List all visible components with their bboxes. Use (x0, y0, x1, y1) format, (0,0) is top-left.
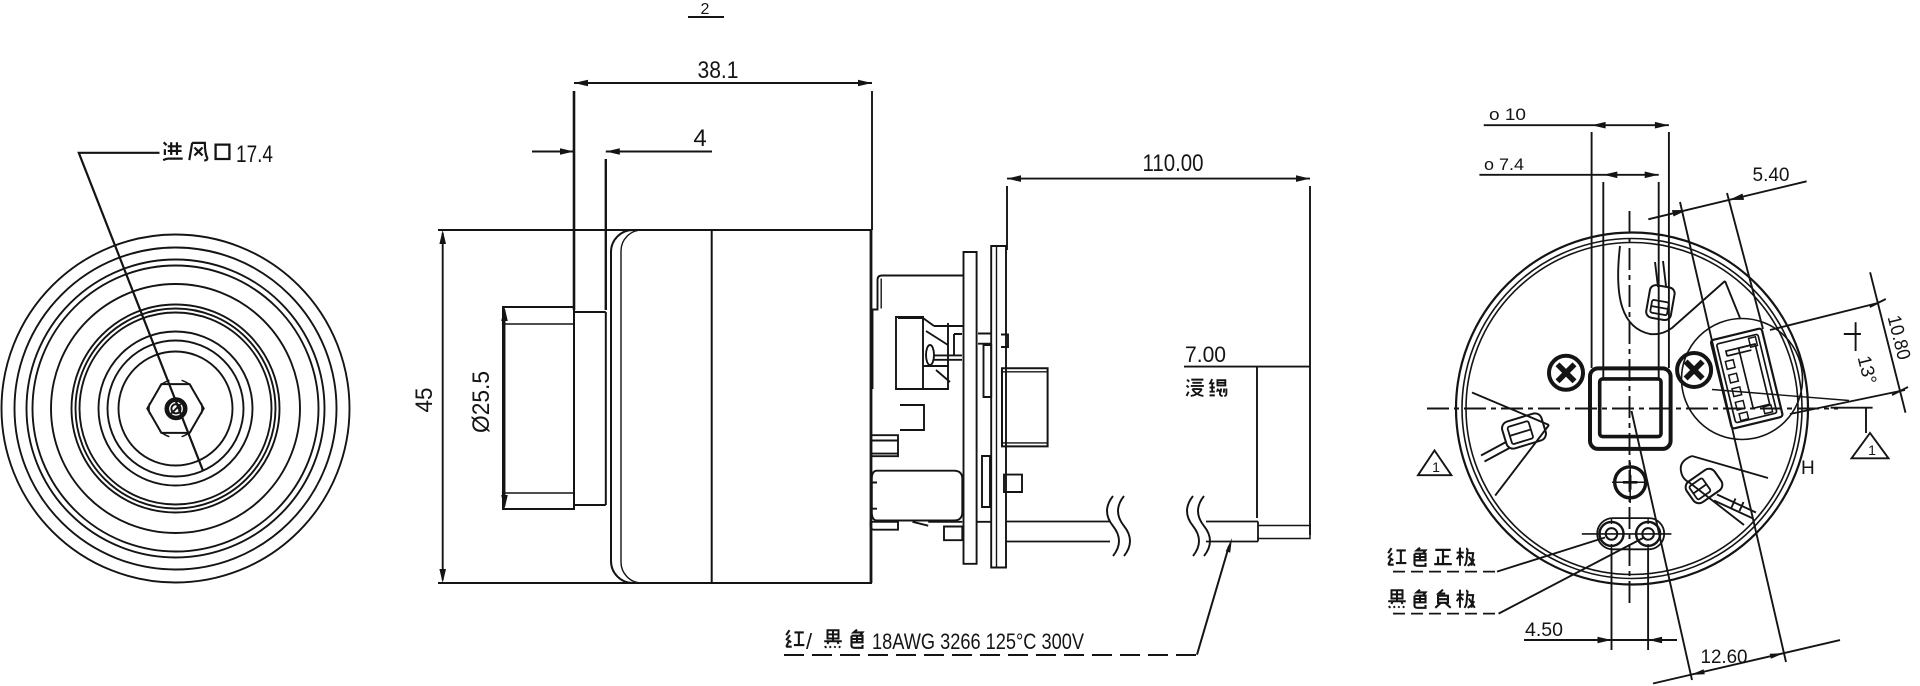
dimension 7.00 浸锡 (1184, 367, 1310, 518)
svg-text:12.60: 12.60 (1701, 647, 1748, 668)
svg-text:5.40: 5.40 (1753, 165, 1790, 186)
svg-text:2: 2 (701, 1, 710, 18)
fan housing circle 3 (27, 260, 325, 558)
svg-text:1: 1 (1432, 459, 1440, 475)
rear plate 2 inner line (996, 246, 998, 568)
svg-text:/: / (806, 629, 813, 654)
brush bracket inner line (880, 279, 882, 309)
tinned lead 7.00 (1258, 526, 1310, 539)
outer circle (1456, 233, 1808, 585)
left clip head (1500, 412, 1547, 451)
dimension 45 (442, 233, 444, 580)
vertical centerline (1629, 211, 1631, 606)
svg-text:110.00: 110.00 (1143, 150, 1204, 177)
inlet circle 11 (119, 352, 233, 466)
lower brush housing (872, 471, 963, 521)
dimension 110.00 (1007, 179, 1310, 535)
black label underline (1393, 613, 1499, 615)
wire label 红/黑色 18AWG 3266 125C 300V (786, 629, 1084, 654)
red label underline (1393, 571, 1497, 573)
inter-plate top tick (978, 334, 991, 344)
small block below connector (1004, 475, 1022, 492)
terminal tab above connector (1001, 335, 1008, 348)
slant connector right edge line (1727, 193, 1763, 329)
svg-text:4.50: 4.50 (1525, 620, 1563, 641)
left triangle 1 (1418, 450, 1451, 475)
hex nut chamfer arcs (149, 380, 202, 436)
dimension 12.60 (1653, 640, 1840, 683)
rear plate 2 (991, 246, 1006, 568)
lower left gray block (872, 435, 898, 456)
left clip pocket (1472, 393, 1549, 496)
shaft screw slot (171, 404, 181, 414)
svg-text:1: 1 (1868, 442, 1876, 458)
housing seam (711, 230, 713, 583)
slant center line (1632, 411, 1693, 680)
rear tab below plates (944, 527, 962, 541)
inter-plate bar upper (984, 345, 992, 397)
body bottom edge + 45 extension (438, 582, 872, 584)
lead wire (1006, 522, 1310, 542)
horizontal centerline (1427, 408, 1838, 410)
screw right (1677, 353, 1711, 387)
inner circle a (1462, 239, 1802, 579)
dimension o7.4 (1479, 175, 1658, 378)
screw left (1549, 356, 1583, 390)
brush vertical divider (948, 323, 962, 366)
wire label arrow (1197, 546, 1229, 655)
label 进风口17.4 (163, 141, 273, 168)
collar 4mm (574, 312, 606, 505)
lower horizontal (928, 521, 991, 523)
wire break marks (1107, 496, 1210, 556)
inlet ring circle 6 (72, 305, 280, 513)
dimension Ø25.5 (504, 310, 506, 506)
brush lower detail (923, 366, 950, 389)
leader line 进风口 (79, 153, 203, 471)
inlet cylinder inner top line (503, 323, 574, 325)
dimension o10 (1484, 125, 1669, 368)
rear plate 1 (964, 252, 977, 564)
connector block (1002, 368, 1048, 446)
svg-text:45: 45 (411, 388, 438, 413)
brush upper detail lines (898, 318, 963, 360)
bottom right clip head (1683, 466, 1725, 506)
inlet cylinder inner bottom line (503, 492, 574, 494)
terminal stadium (1597, 518, 1664, 549)
dimension 13 deg (1844, 322, 1861, 351)
inlet ring circle 8 (80, 313, 272, 505)
svg-text:7.00: 7.00 (1185, 342, 1226, 367)
shaft square outer (1590, 368, 1671, 449)
shaft square inner (1600, 379, 1661, 437)
svg-text:o 10: o 10 (1489, 105, 1526, 124)
bottom right clip pocket (1681, 456, 1768, 525)
connector pocket circle (1682, 319, 1803, 440)
inner circle b (1466, 243, 1798, 575)
slant connector left edge line (1680, 202, 1786, 662)
dimension 4 (532, 152, 712, 311)
label 浸锡 (1187, 380, 1204, 396)
fan housing circle 4 (33, 266, 319, 552)
terminal line (1582, 533, 1672, 535)
body top edge + 45 extension (438, 229, 872, 231)
lower tick (913, 522, 929, 526)
black leader (1499, 538, 1643, 614)
top clip stem (1655, 261, 1666, 287)
fan shell inner edge (621, 230, 642, 583)
connector block rotated (1710, 328, 1783, 429)
svg-text:18AWG 3266 125°C 300V: 18AWG 3266 125°C 300V (872, 629, 1084, 654)
brush mid step (900, 405, 924, 430)
misc thin line (1712, 390, 1849, 401)
connector block inner lines (1002, 372, 1048, 443)
fan shell left edge (611, 230, 633, 583)
label 黑色负极 (1388, 590, 1475, 608)
inlet cylinder (503, 307, 574, 509)
right triangle 1 (1852, 433, 1889, 458)
inlet ring circle 7 (76, 309, 276, 509)
wire jacket end (1257, 522, 1259, 542)
lower housing step (872, 483, 877, 509)
left clip stem (1481, 442, 1510, 462)
brush bracket top (873, 276, 964, 390)
lower bracket bar (871, 522, 899, 530)
inter-plate bar lower (982, 456, 990, 507)
red leader (1497, 538, 1605, 572)
svg-text:17.4: 17.4 (236, 141, 273, 168)
brush spring eye (926, 345, 934, 365)
wire label underline dashed (784, 654, 1197, 656)
fan housing circle 5 (51, 284, 300, 533)
pocket link line (1725, 281, 1740, 318)
svg-text:H: H (1801, 458, 1815, 479)
right datum flag (1831, 408, 1873, 433)
top clip head (1645, 284, 1675, 321)
dimension 38.1 (574, 83, 872, 310)
center hex nut (147, 384, 203, 433)
terminal eyelet right (1636, 518, 1660, 550)
inlet circle 10 (108, 341, 244, 477)
shaft screw ring (167, 400, 185, 418)
fan housing circle 2 (15, 248, 337, 570)
shaft screw inner circle (171, 404, 180, 413)
brush holder upper block (896, 317, 923, 389)
clamp screw bottom (1612, 462, 1648, 503)
fan housing outer circle (2, 235, 350, 583)
label 红色正极 (1388, 548, 1475, 566)
terminal eyelet left (1600, 518, 1624, 550)
dimension 4.50 (1524, 548, 1677, 650)
bottom right clip stem (1714, 495, 1756, 519)
sheet number underline (688, 16, 724, 18)
svg-text:38.1: 38.1 (698, 57, 739, 84)
dimension 10.80 (1770, 272, 1908, 414)
dimension 5.40 (1648, 181, 1806, 219)
top clip pocket (1618, 246, 1725, 334)
motor rear edge (870, 230, 873, 583)
inlet circle 9 (99, 332, 253, 486)
svg-text:Ø25.5: Ø25.5 (468, 371, 495, 433)
svg-text:o 7.4: o 7.4 (1484, 155, 1524, 174)
svg-text:4: 4 (693, 125, 706, 152)
